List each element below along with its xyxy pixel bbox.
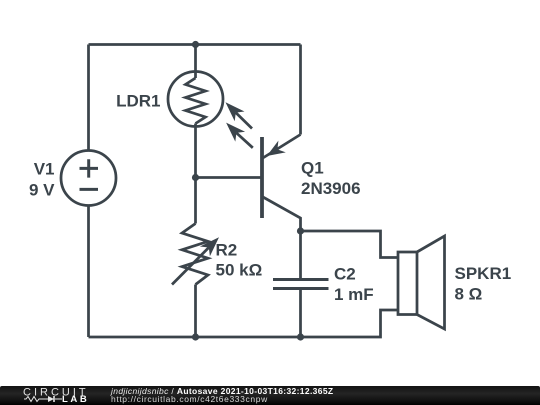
LDR LDR1 light arrow upper	[226, 102, 253, 128]
wire bottom rail to speaker	[301, 310, 399, 337]
node junction base	[192, 174, 199, 181]
footer bar	[0, 386, 540, 405]
LDR LDR1 zigzag element	[186, 78, 206, 124]
svg-text:Q1: Q1	[301, 159, 324, 178]
wire C2 top lead	[299, 231, 302, 280]
capacitor C2 bottom plate	[273, 287, 329, 290]
wire R2 bottom lead	[194, 285, 197, 338]
wire LDR bottom lead to base node	[194, 124, 197, 178]
wire bottom rail left segment	[89, 336, 196, 339]
wire V1 bottom lead	[87, 206, 90, 338]
svg-text:V1: V1	[34, 160, 55, 179]
svg-text:50 kΩ: 50 kΩ	[216, 261, 263, 280]
footer text line 2	[111, 394, 268, 404]
CircuitLab logo	[18, 385, 118, 405]
svg-text:R2: R2	[216, 241, 238, 260]
potentiometer R2 wiper arrow	[172, 237, 219, 284]
wire collector to speaker	[301, 231, 399, 258]
voltage source V1 minus sign	[80, 188, 99, 191]
transistor Q1 base bar	[260, 137, 264, 218]
wire V1 top lead	[87, 45, 90, 151]
voltage source V1 circle	[61, 151, 116, 206]
svg-text:LAB: LAB	[62, 394, 89, 405]
node junction top rail / LDR	[192, 41, 199, 48]
LDR LDR1 light arrow lower	[226, 123, 253, 148]
potentiometer R2 zigzag	[182, 224, 208, 285]
transistor Q1 collector	[262, 197, 301, 232]
LDR LDR1 circle	[168, 72, 223, 127]
wire R2 top lead	[194, 178, 197, 224]
wire top rail right segment	[196, 43, 301, 46]
footer text line 1	[111, 386, 333, 396]
svg-text:9 V: 9 V	[29, 181, 55, 200]
speaker SPKR1 cone	[417, 236, 445, 329]
voltage source V1 plus sign	[80, 159, 99, 177]
transistor Q1 emitter arrow	[267, 141, 286, 156]
node junction collector / C2 / speaker	[297, 227, 304, 234]
svg-text:C2: C2	[334, 265, 356, 284]
wire base connection	[196, 176, 261, 179]
svg-text:LDR1: LDR1	[116, 92, 160, 111]
node junction bottom rail / R2	[192, 333, 199, 340]
svg-text:2N3906: 2N3906	[301, 179, 361, 198]
wire LDR top lead	[194, 45, 197, 79]
transistor Q1 emitter	[262, 135, 301, 159]
node junction bottom rail / C2	[297, 333, 304, 340]
svg-text:SPKR1: SPKR1	[455, 264, 512, 283]
wire bottom rail middle segment	[196, 336, 301, 339]
svg-text:8 Ω: 8 Ω	[455, 285, 483, 304]
wire top rail left segment	[89, 43, 196, 46]
svg-text:1 mF: 1 mF	[334, 285, 374, 304]
wire emitter drop from top rail	[299, 45, 302, 135]
speaker SPKR1 body rectangle	[398, 252, 417, 315]
capacitor C2 top plate	[273, 278, 329, 281]
wire C2 bottom lead	[299, 289, 302, 338]
